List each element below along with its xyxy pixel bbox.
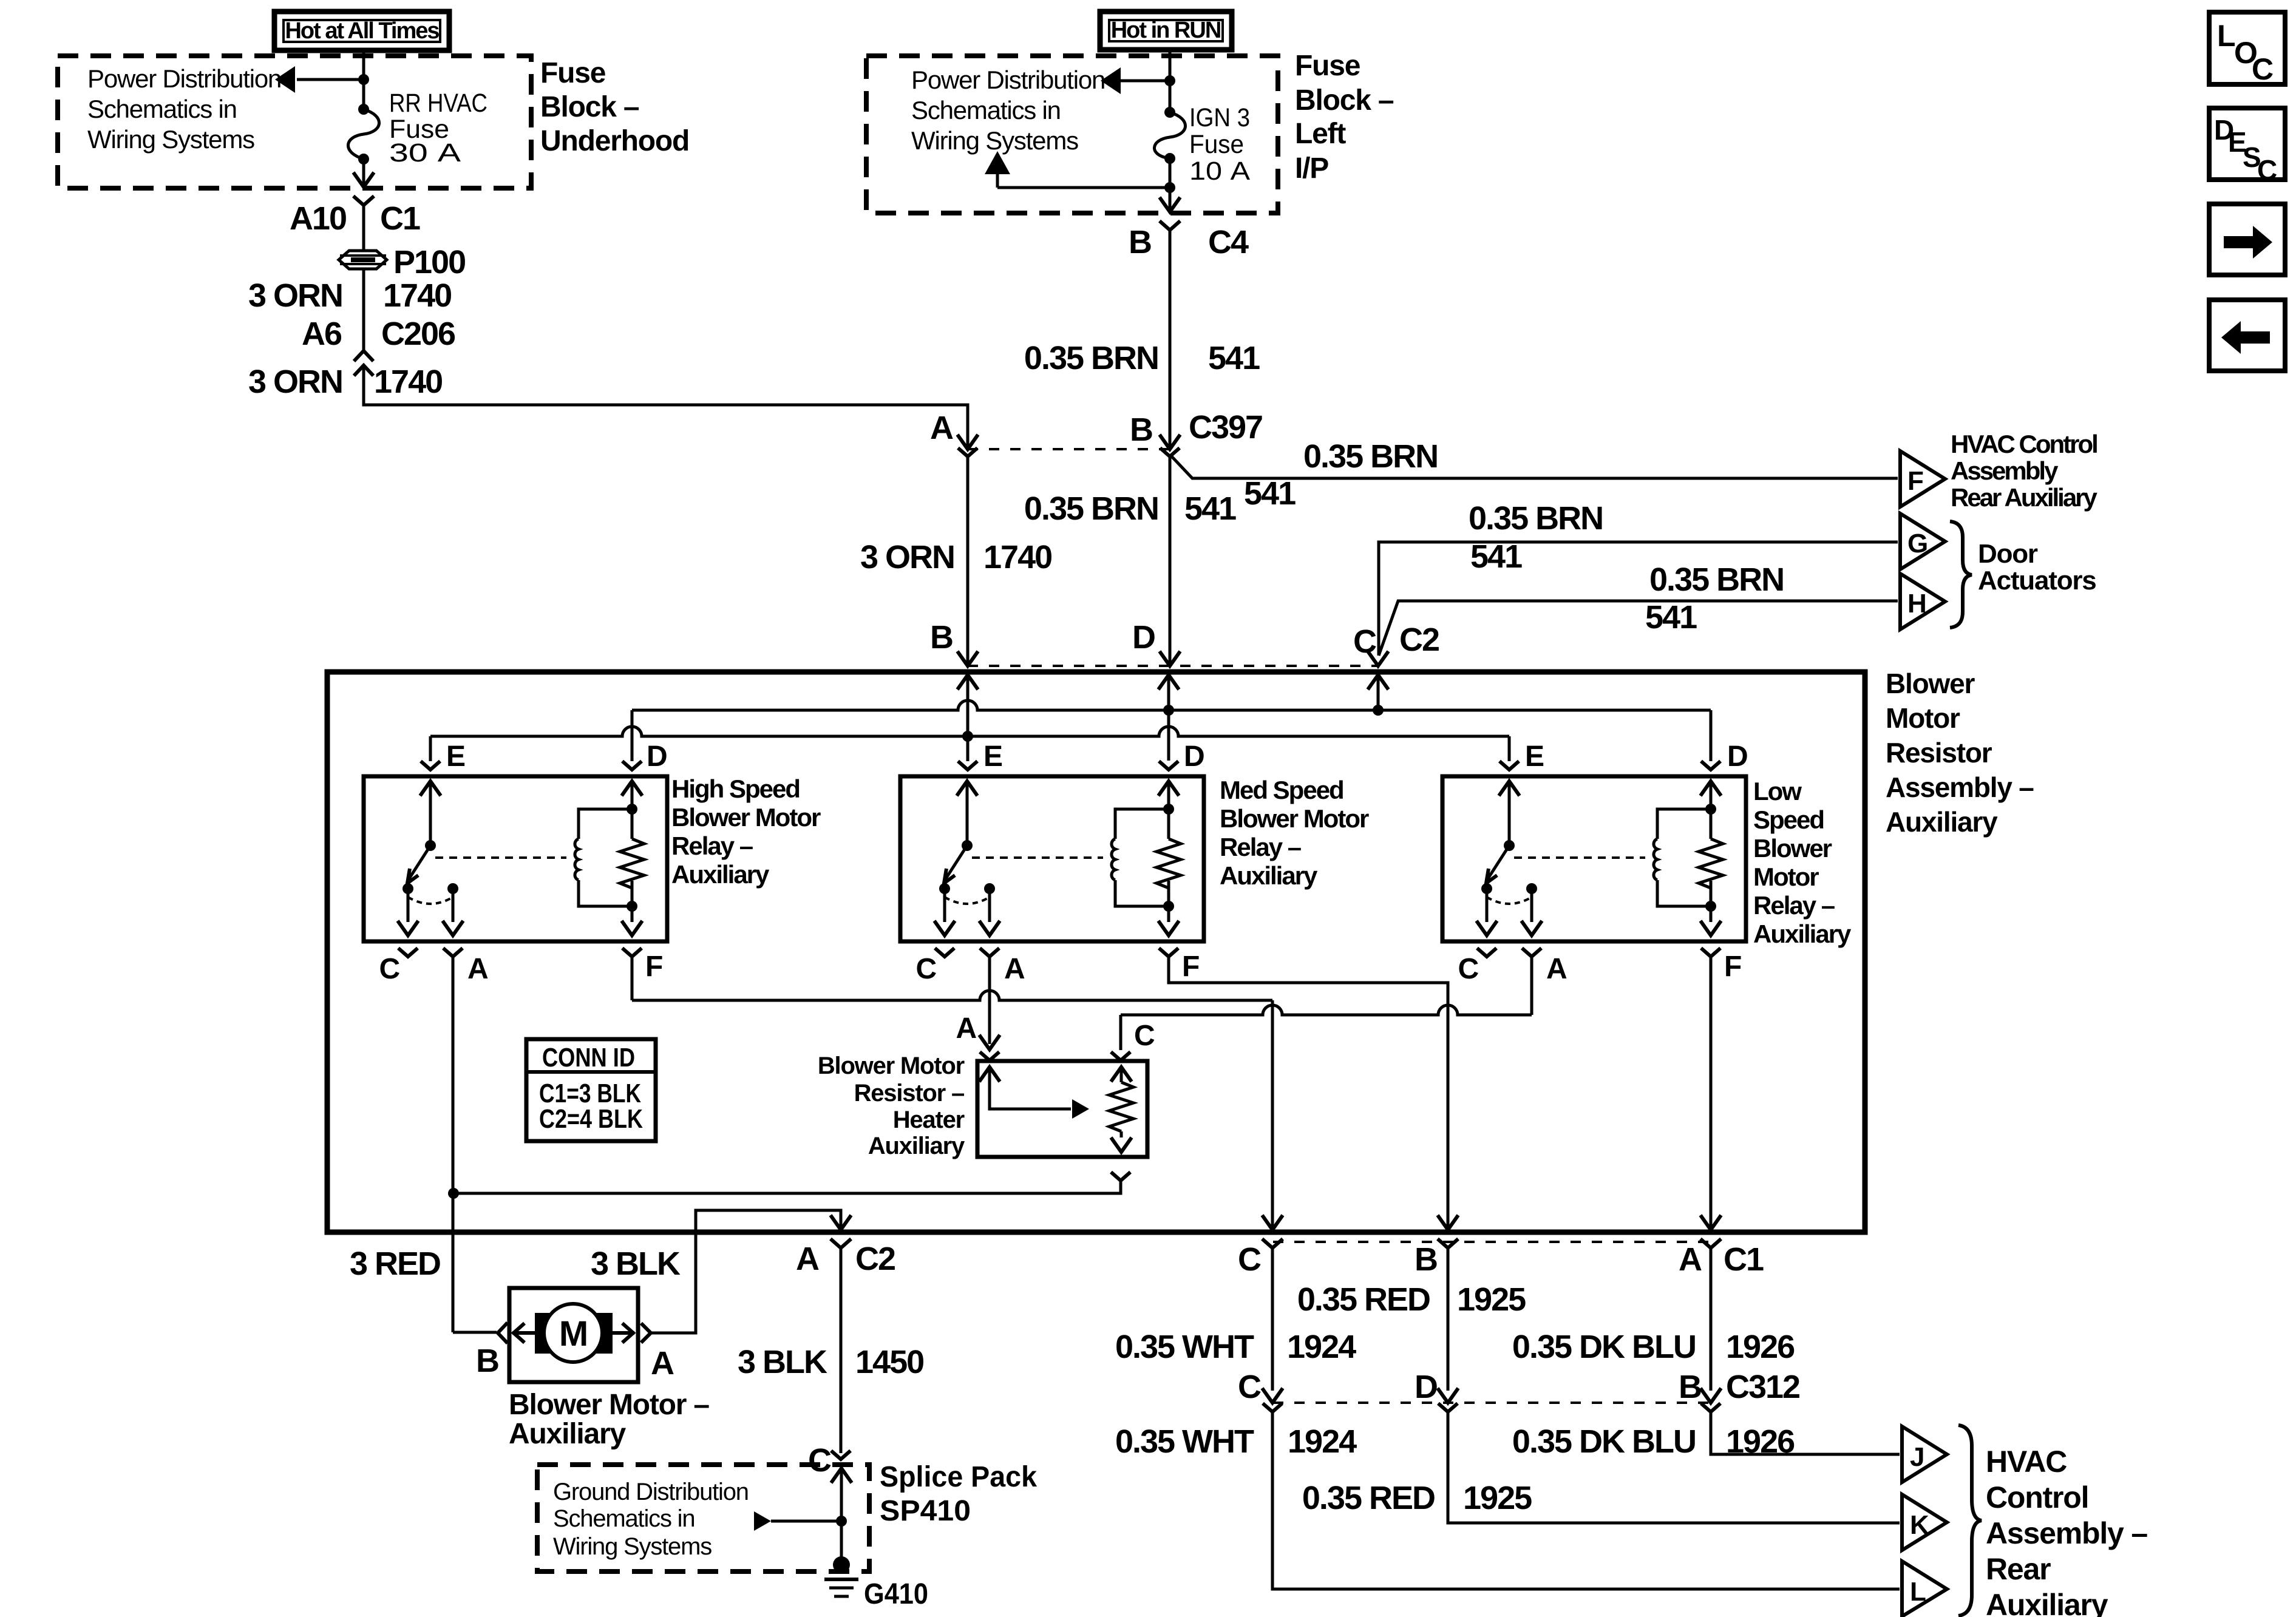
svg-text:Relay –: Relay – xyxy=(1220,833,1302,861)
svg-text:Low: Low xyxy=(1753,777,1802,805)
wire 3 BLK motor to C2 pin A xyxy=(651,1210,841,1333)
svg-text:Motor: Motor xyxy=(1886,702,1960,734)
wire med relay F to C1 pin B xyxy=(1169,958,1448,1229)
svg-text:C: C xyxy=(1353,623,1376,660)
junction dot xyxy=(358,74,369,85)
svg-text:Assembly –: Assembly – xyxy=(1886,771,2034,803)
wire 0.35 RED 1925 upper xyxy=(1447,1248,1450,1391)
svg-text:1926: 1926 xyxy=(1726,1329,1795,1365)
svg-text:G410: G410 xyxy=(864,1578,928,1610)
svg-text:3 RED: 3 RED xyxy=(350,1246,440,1282)
wire med relay A to heater resistor xyxy=(988,958,991,1044)
svg-text:P100: P100 xyxy=(393,244,465,280)
entry arrow D xyxy=(1158,675,1179,690)
blower box connector dashed line xyxy=(968,665,1378,667)
heater resistor connector A xyxy=(979,1035,1000,1049)
legend box next arrow xyxy=(2209,204,2285,275)
wire 3 BLK 1450 to splice pack xyxy=(840,1248,843,1453)
svg-text:0.35 RED: 0.35 RED xyxy=(1297,1281,1430,1318)
svg-text:0.35 BRN: 0.35 BRN xyxy=(1303,438,1438,475)
motor A connector xyxy=(641,1323,651,1343)
svg-text:K: K xyxy=(1910,1510,1929,1540)
ground G410 xyxy=(833,1556,850,1573)
connector C1 dashed line xyxy=(1273,1241,1711,1243)
svg-text:C: C xyxy=(2252,52,2273,86)
triangle K xyxy=(1902,1494,1947,1550)
svg-text:C1: C1 xyxy=(380,200,420,237)
svg-text:CONN ID: CONN ID xyxy=(542,1043,635,1073)
svg-text:C: C xyxy=(1238,1241,1261,1278)
junction dot D bus at 1925 xyxy=(1163,705,1174,716)
bus line D (upper) xyxy=(632,700,1711,710)
svg-text:Speed: Speed xyxy=(1753,805,1824,834)
svg-text:0.35 RED: 0.35 RED xyxy=(1302,1480,1435,1516)
bus line E (lower) xyxy=(430,727,1509,736)
svg-text:0.35 DK BLU: 0.35 DK BLU xyxy=(1512,1329,1696,1365)
svg-text:Hot in RUN: Hot in RUN xyxy=(1111,18,1221,43)
svg-text:Schematics in: Schematics in xyxy=(87,95,237,123)
svg-text:Schematics in: Schematics in xyxy=(553,1505,695,1532)
svg-text:Rear Auxiliary: Rear Auxiliary xyxy=(1951,483,2098,512)
svg-text:E: E xyxy=(1525,741,1544,773)
junction dot xyxy=(1164,75,1175,86)
svg-text:541: 541 xyxy=(1645,599,1697,636)
motor B connector xyxy=(498,1323,508,1343)
svg-text:3 BLK: 3 BLK xyxy=(738,1344,827,1380)
wire 1925 to K xyxy=(1448,1412,1900,1523)
svg-text:C: C xyxy=(2257,154,2277,186)
svg-text:Underhood: Underhood xyxy=(540,125,689,157)
svg-text:SP410: SP410 xyxy=(880,1495,971,1527)
svg-text:A: A xyxy=(796,1241,819,1277)
svg-text:Auxiliary: Auxiliary xyxy=(1220,861,1318,890)
fuse IGN 3 10A xyxy=(1164,107,1175,118)
svg-text:Wiring Systems: Wiring Systems xyxy=(553,1533,712,1560)
C312 arrow D xyxy=(1438,1388,1458,1403)
wire 541 branch to door actuator H xyxy=(1379,601,1898,656)
svg-text:3 BLK: 3 BLK xyxy=(591,1246,681,1282)
wire 541 branch to door actuator G xyxy=(1379,542,1898,656)
svg-text:Block –: Block – xyxy=(1295,84,1394,117)
svg-text:B: B xyxy=(476,1343,498,1379)
pin C arrow xyxy=(1368,651,1388,666)
svg-text:C4: C4 xyxy=(1208,224,1249,260)
svg-text:1925: 1925 xyxy=(1463,1480,1532,1516)
connector chevron B/C4 xyxy=(1160,221,1180,230)
svg-text:Schematics in: Schematics in xyxy=(911,96,1061,124)
svg-text:0.35 DK BLU: 0.35 DK BLU xyxy=(1512,1423,1696,1460)
svg-text:D: D xyxy=(1184,741,1204,773)
svg-text:B: B xyxy=(1130,412,1152,448)
svg-text:C: C xyxy=(808,1442,831,1479)
svg-text:C397: C397 xyxy=(1189,409,1262,446)
svg-text:Left: Left xyxy=(1295,118,1346,150)
wire from Hot in RUN xyxy=(1169,48,1172,112)
dashed box Splice Pack SP410 xyxy=(537,1465,869,1571)
svg-text:Blower Motor: Blower Motor xyxy=(1220,804,1369,833)
svg-text:Assembly: Assembly xyxy=(1951,456,2059,485)
box Blower Motor Resistor - Heater Auxiliary xyxy=(977,1061,1147,1157)
wire 0.35 BRN 541 to blower box pin D xyxy=(1169,456,1172,664)
wire low relay F to C1 pin A xyxy=(1710,958,1713,1229)
legend box prev arrow xyxy=(2209,300,2285,371)
arrow at fuse block exit xyxy=(353,172,374,187)
dashed box Fuse Block - Underhood xyxy=(58,56,531,188)
svg-text:D: D xyxy=(1132,619,1155,656)
svg-text:C312: C312 xyxy=(1726,1369,1799,1405)
svg-text:1925: 1925 xyxy=(1457,1281,1526,1318)
C397 cavity A arrow xyxy=(957,435,978,449)
svg-text:RR HVAC: RR HVAC xyxy=(389,89,487,118)
svg-text:Med Speed: Med Speed xyxy=(1220,776,1343,804)
svg-text:0.35 WHT: 0.35 WHT xyxy=(1115,1423,1254,1460)
svg-text:C2: C2 xyxy=(1399,622,1439,658)
svg-text:0.35 BRN: 0.35 BRN xyxy=(1024,490,1158,527)
connector chevron A10/C1 xyxy=(353,196,374,205)
svg-text:C2: C2 xyxy=(855,1241,895,1277)
svg-text:High Speed: High Speed xyxy=(671,775,800,803)
svg-text:541: 541 xyxy=(1208,340,1260,376)
svg-text:D: D xyxy=(1727,741,1747,773)
drop to low relay D xyxy=(1710,710,1713,761)
relay K1 High Speed Blower Motor Relay - Auxiliary xyxy=(364,776,667,985)
splice connector chevron xyxy=(831,1451,851,1459)
svg-text:Motor: Motor xyxy=(1753,863,1819,891)
grommet P100 xyxy=(339,251,387,269)
reference arrow to Power Distribution (right) xyxy=(1120,80,1170,83)
svg-text:B: B xyxy=(1415,1241,1437,1278)
heater resistor element xyxy=(1111,1067,1132,1082)
svg-text:A: A xyxy=(1679,1241,1702,1278)
svg-text:B: B xyxy=(1679,1369,1701,1405)
svg-text:E: E xyxy=(446,741,465,773)
svg-text:H: H xyxy=(1907,589,1926,619)
reference arrow to Power Distribution xyxy=(297,78,364,81)
svg-text:1924: 1924 xyxy=(1288,1423,1357,1460)
arrow at fuse block exit xyxy=(1160,197,1180,212)
svg-text:Blower: Blower xyxy=(1886,668,1975,699)
box Blower Motor Resistor Assembly - Auxiliary xyxy=(327,672,1865,1232)
svg-text:A10: A10 xyxy=(290,200,346,237)
svg-text:Auxiliary: Auxiliary xyxy=(1753,920,1852,948)
wire 3 RED from high relay A xyxy=(452,958,455,1332)
svg-text:Blower Motor: Blower Motor xyxy=(671,803,821,832)
svg-text:3 ORN: 3 ORN xyxy=(860,539,954,575)
svg-text:Control: Control xyxy=(1986,1480,2088,1514)
wire 1924 to L xyxy=(1272,1412,1900,1589)
splice entry arrow xyxy=(831,1468,852,1483)
svg-text:Assembly –: Assembly – xyxy=(1986,1516,2147,1550)
svg-text:Fuse: Fuse xyxy=(540,57,606,89)
power label box 'Hot in RUN' xyxy=(1100,12,1232,50)
drop to high relay D xyxy=(631,710,634,761)
svg-text:G: G xyxy=(1907,529,1927,558)
svg-text:C1: C1 xyxy=(1724,1241,1764,1278)
svg-text:Auxiliary: Auxiliary xyxy=(868,1133,965,1159)
svg-text:C: C xyxy=(1134,1020,1155,1052)
svg-text:0.35 BRN: 0.35 BRN xyxy=(1469,500,1603,537)
power label box 'Hot at All Times' xyxy=(274,12,449,50)
wire P100 down xyxy=(362,269,365,352)
svg-text:10 A: 10 A xyxy=(1189,157,1250,186)
relay K3 Low Speed Blower Motor Relay - Auxiliary xyxy=(1442,776,1746,985)
svg-text:0.35 BRN: 0.35 BRN xyxy=(1649,561,1784,598)
svg-text:C2=4 BLK: C2=4 BLK xyxy=(539,1104,643,1134)
svg-text:1740: 1740 xyxy=(374,364,442,400)
svg-text:Block –: Block – xyxy=(540,91,639,123)
motor brushes xyxy=(535,1313,574,1354)
svg-text:Rear: Rear xyxy=(1986,1552,2051,1586)
svg-text:Splice Pack: Splice Pack xyxy=(880,1461,1037,1493)
svg-text:Fuse: Fuse xyxy=(1189,130,1244,159)
drop to med relay D xyxy=(1159,761,1178,770)
svg-text:Heater: Heater xyxy=(893,1107,965,1133)
relay K2 Med Speed Blower Motor Relay - Auxiliary xyxy=(900,776,1204,985)
svg-text:Wiring Systems: Wiring Systems xyxy=(87,125,254,154)
wire from Hot at All Times into fuse block xyxy=(362,49,365,109)
wire to P100 xyxy=(362,205,365,251)
svg-text:Auxiliary: Auxiliary xyxy=(671,860,770,889)
svg-text:1924: 1924 xyxy=(1287,1329,1356,1365)
connector C397 dashed line xyxy=(968,448,1170,450)
junction dot E bus at 1594 xyxy=(962,731,973,742)
C312 arrow B xyxy=(1700,1388,1721,1403)
svg-text:I/P: I/P xyxy=(1295,152,1328,185)
wire high relay F to C pin xyxy=(631,958,634,1000)
triangle L xyxy=(1902,1561,1947,1616)
svg-text:E: E xyxy=(983,741,1002,773)
svg-text:3 ORN: 3 ORN xyxy=(248,364,342,400)
svg-text:Relay –: Relay – xyxy=(671,832,753,860)
svg-text:B: B xyxy=(1129,224,1151,260)
svg-text:Resistor –: Resistor – xyxy=(854,1080,965,1107)
wire to box edge xyxy=(1169,188,1172,211)
heater resistor connector C xyxy=(1111,1052,1130,1060)
fuse RR HVAC 30A xyxy=(358,104,369,115)
connector C312 dashed line xyxy=(1273,1402,1711,1404)
triangle J xyxy=(1902,1426,1947,1482)
wire 3 ORN 1740 to corner xyxy=(364,367,968,447)
svg-text:Blower Motor: Blower Motor xyxy=(818,1053,965,1079)
ground reference arrow xyxy=(754,1511,771,1531)
wire 0.35 WHT 1924 upper xyxy=(1271,1248,1274,1391)
svg-text:A: A xyxy=(956,1012,977,1045)
return wire with up arrow xyxy=(1169,158,1172,188)
pin B arrow xyxy=(957,651,978,666)
svg-text:Auxiliary: Auxiliary xyxy=(1986,1588,2108,1617)
heater resistor bottom exit xyxy=(1111,1172,1130,1181)
svg-text:A: A xyxy=(651,1345,674,1381)
brace HVAC control assembly xyxy=(1958,1425,1982,1616)
wire 0.35 BRN 541 to C397 xyxy=(1169,230,1172,447)
svg-text:0.35 WHT: 0.35 WHT xyxy=(1115,1329,1254,1365)
svg-text:C: C xyxy=(1238,1369,1261,1405)
triangle H xyxy=(1900,574,1945,629)
wire fuse to box edge xyxy=(362,159,365,186)
svg-text:541: 541 xyxy=(1184,490,1236,527)
wire low relay A to heater resistor C xyxy=(1530,958,1533,1015)
wire 3 RED corner to motor B xyxy=(453,1331,497,1334)
svg-text:Resistor: Resistor xyxy=(1886,737,1992,768)
svg-text:Auxiliary: Auxiliary xyxy=(1886,806,1998,838)
svg-text:Power Distribution: Power Distribution xyxy=(87,64,281,93)
svg-text:L: L xyxy=(2217,19,2235,53)
svg-text:Ground Distribution: Ground Distribution xyxy=(553,1479,749,1505)
entry arrow B xyxy=(957,675,978,690)
brace door actuators xyxy=(1950,521,1972,628)
svg-text:Power Distribution: Power Distribution xyxy=(911,66,1105,94)
svg-text:1450: 1450 xyxy=(855,1344,923,1380)
triangle F to HVAC control assembly xyxy=(1900,451,1945,507)
svg-text:Auxiliary: Auxiliary xyxy=(509,1418,626,1450)
junction dot resistor return xyxy=(448,1188,459,1199)
svg-text:0.35 BRN: 0.35 BRN xyxy=(1024,340,1158,376)
triangle G xyxy=(1900,514,1945,569)
svg-text:1740: 1740 xyxy=(383,277,451,314)
wire 0.35 DK BLU 1926 upper xyxy=(1710,1248,1713,1391)
wire 1926 to J xyxy=(1711,1412,1900,1454)
motor circle M xyxy=(544,1304,602,1362)
C397 cavity B arrow xyxy=(1160,435,1180,449)
svg-text:Blower Motor –: Blower Motor – xyxy=(509,1389,709,1421)
svg-text:30 A: 30 A xyxy=(389,138,461,168)
svg-text:M: M xyxy=(559,1314,587,1354)
legend box LOC xyxy=(2209,12,2285,84)
motor terminals xyxy=(512,1331,535,1335)
svg-text:3 ORN: 3 ORN xyxy=(248,277,342,314)
svg-text:Wiring Systems: Wiring Systems xyxy=(911,126,1078,155)
svg-text:D: D xyxy=(1415,1369,1437,1405)
wire 541 branch to HVAC control F xyxy=(1172,456,1898,478)
svg-text:Hot at All Times: Hot at All Times xyxy=(285,18,439,44)
entry arrow C2 xyxy=(1368,675,1388,690)
box exit arrow at C (C1) xyxy=(1262,1215,1283,1230)
CONN ID table xyxy=(526,1039,656,1141)
svg-text:541: 541 xyxy=(1244,475,1296,512)
connector A/C2 at box bottom xyxy=(830,1215,851,1230)
drop to med relay E xyxy=(966,736,970,761)
svg-text:A6: A6 xyxy=(302,316,342,352)
svg-text:F: F xyxy=(1907,466,1923,496)
inline connector C206 xyxy=(354,351,373,361)
svg-text:HVAC: HVAC xyxy=(1986,1445,2067,1479)
pin D arrow xyxy=(1160,651,1180,666)
drop to high relay E xyxy=(429,736,432,761)
svg-text:A: A xyxy=(930,410,953,446)
svg-text:Relay –: Relay – xyxy=(1753,891,1835,920)
svg-text:L: L xyxy=(1910,1577,1926,1607)
junction dot D bus at 2270 xyxy=(1373,705,1384,716)
drop to low relay E xyxy=(1508,736,1511,761)
svg-text:J: J xyxy=(1910,1442,1924,1472)
box exit arrow at A (C1) xyxy=(1700,1215,1721,1230)
svg-text:Fuse: Fuse xyxy=(1295,50,1360,82)
svg-text:D: D xyxy=(647,741,667,773)
svg-text:Actuators: Actuators xyxy=(1978,566,2096,595)
svg-text:B: B xyxy=(930,619,953,656)
box exit arrow at B (C1) xyxy=(1438,1215,1458,1230)
svg-text:Door: Door xyxy=(1978,539,2038,569)
svg-text:C206: C206 xyxy=(381,316,455,352)
svg-text:1740: 1740 xyxy=(983,539,1051,575)
svg-text:541: 541 xyxy=(1470,538,1522,575)
dashed box Fuse Block - Left I/P xyxy=(866,56,1278,213)
svg-text:Blower: Blower xyxy=(1753,834,1832,863)
box Blower Motor - Auxiliary xyxy=(509,1288,638,1382)
wire 3 ORN 1740 to blower box pin B xyxy=(966,456,970,664)
heater resistor wiper xyxy=(979,1067,1000,1082)
svg-text:HVAC Control: HVAC Control xyxy=(1951,430,2097,458)
svg-text:IGN 3: IGN 3 xyxy=(1189,103,1250,132)
C312 arrow C xyxy=(1262,1388,1283,1403)
legend box DESC xyxy=(2209,108,2285,180)
